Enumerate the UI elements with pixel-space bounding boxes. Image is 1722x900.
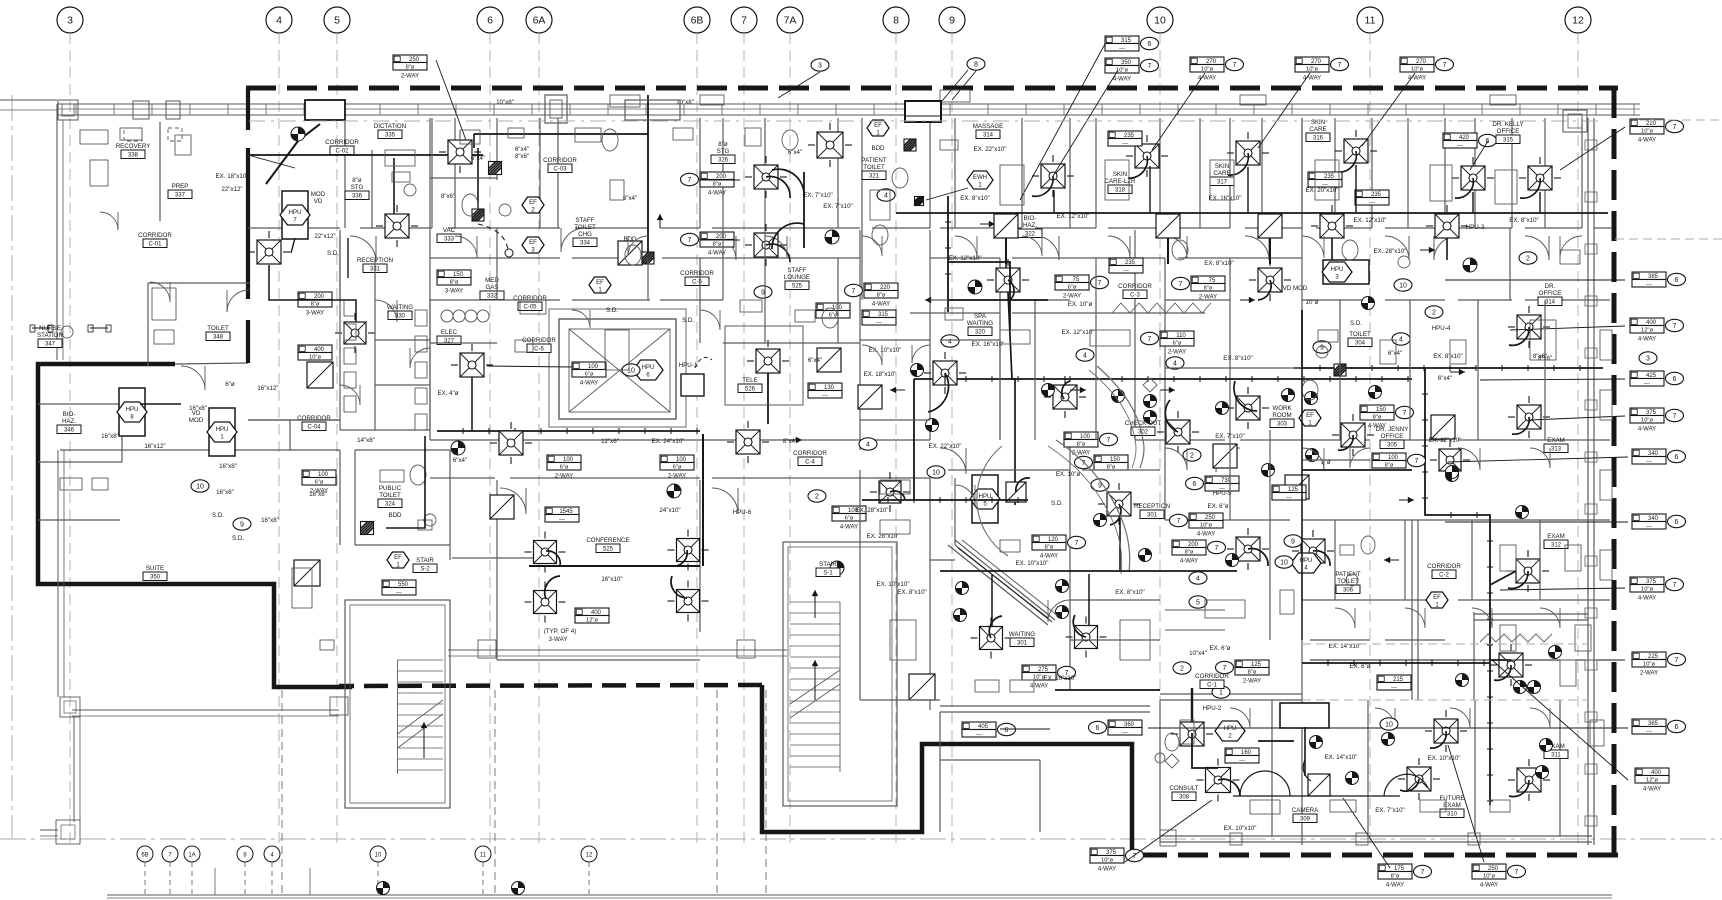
svg-text:TOILET: TOILET [207, 325, 229, 332]
callout 9 [233, 518, 251, 530]
svg-text:—: — [1122, 140, 1128, 146]
svg-text:SKIN: SKIN [1311, 119, 1325, 126]
svg-text:TOILET: TOILET [379, 492, 401, 499]
svg-text:EX. 22"x10": EX. 22"x10" [974, 146, 1007, 153]
curved corridor wall2 [1048, 446, 1122, 574]
HPU unit 8 [117, 402, 147, 422]
transfer grille [817, 348, 841, 372]
counter sawtooth [1112, 303, 1211, 313]
svg-text:CARE: CARE [1213, 170, 1230, 177]
supply diffuser [1517, 768, 1541, 792]
HPU cabinet [209, 408, 235, 456]
tag D 235 [1355, 190, 1389, 198]
tag AI 220 [864, 283, 898, 291]
damper f3 [1456, 674, 1469, 687]
tag AI 75 [1191, 276, 1225, 284]
grid bubble 10 [1147, 7, 1173, 33]
supply diffuser [1341, 423, 1365, 447]
flex handle [505, 249, 513, 257]
svg-text:320: 320 [975, 330, 986, 336]
duct vert x648 [647, 95, 649, 260]
svg-text:4-WAY: 4-WAY [872, 302, 890, 308]
duct hpu7 run [269, 265, 356, 322]
duct vert mid [947, 196, 949, 312]
bottom grid bubble 7 [162, 846, 178, 862]
supply diffuser [1075, 626, 1098, 649]
svg-text:EX. 8"x10": EX. 8"x10" [897, 589, 927, 596]
balancing damper [1536, 766, 1549, 779]
svg-text:—: — [1286, 494, 1292, 500]
svg-text:—: — [822, 392, 828, 398]
bottom grid leader 4 [271, 862, 273, 895]
svg-text:WAITING: WAITING [967, 320, 993, 327]
svg-text:4: 4 [1173, 360, 1177, 367]
tag AI 75 [1055, 275, 1089, 283]
leader ai100 elec [487, 366, 572, 367]
HPU unit 6 [633, 360, 663, 380]
duct hpu2 out [1192, 733, 1218, 768]
svg-text:TOILET: TOILET [1349, 331, 1371, 338]
bottom grid bubble 4 [264, 846, 280, 862]
tag D 365 [1632, 719, 1666, 727]
svg-text:RECOVERY: RECOVERY [116, 143, 151, 150]
svg-text:SPA: SPA [974, 313, 987, 320]
right wall frames [1585, 140, 1597, 150]
svg-text:8"ø: 8"ø [311, 301, 320, 307]
svg-text:EX. 10"x10": EX. 10"x10" [1428, 755, 1461, 762]
svg-text:7: 7 [1215, 545, 1219, 552]
tag AI 250 [1472, 864, 1506, 872]
svg-text:12"ø: 12"ø [1641, 327, 1654, 333]
fire damper [642, 252, 654, 264]
svg-text:EX. 28"x10": EX. 28"x10" [1374, 248, 1407, 255]
room under biohaz [38, 519, 120, 521]
svg-text:314: 314 [983, 133, 994, 139]
svg-text:7: 7 [1443, 62, 1447, 69]
duct main top right [1290, 212, 1608, 214]
svg-text:7: 7 [1338, 62, 1342, 69]
balancing damper [1463, 258, 1477, 272]
svg-text:4-WAY: 4-WAY [1638, 427, 1656, 433]
duct ex14x10 right [1302, 662, 1490, 664]
svg-text:CORRIDOR: CORRIDOR [513, 295, 547, 302]
svg-text:4-WAY: 4-WAY [1638, 596, 1656, 602]
door swings [350, 236, 376, 262]
callout 9 [1313, 341, 1331, 353]
callout 4 [877, 189, 895, 201]
svg-text:STAIR: STAIR [416, 557, 434, 564]
svg-text:311: 311 [1551, 753, 1561, 759]
exhaust drop [1167, 238, 1169, 264]
tag D 235 [1308, 172, 1342, 180]
svg-text:—: — [1457, 142, 1463, 148]
svg-text:6: 6 [1675, 277, 1679, 284]
svg-text:4-WAY: 4-WAY [1098, 867, 1116, 873]
bottom grid leader 12 [588, 862, 590, 895]
callout 4 [1076, 349, 1094, 361]
duct ex right1 [1490, 571, 1516, 585]
stair S-1 [783, 542, 897, 806]
duct hpu8 out [140, 403, 181, 405]
svg-text:EF: EF [1433, 595, 1441, 601]
desk consult [1280, 703, 1329, 728]
exterior window wall top inner2 [57, 114, 1640, 116]
duct horiz y134 [474, 133, 648, 135]
callout 10b [1380, 718, 1398, 730]
supply diffuser [1236, 537, 1260, 561]
svg-text:308: 308 [1179, 795, 1190, 801]
tag AI 100 [572, 362, 606, 370]
svg-text:10"ø: 10"ø [1641, 417, 1654, 423]
svg-text:10: 10 [196, 483, 204, 490]
terrace rail sw [40, 829, 58, 831]
svg-text:BDD: BDD [388, 512, 402, 519]
tag AI 120 [1032, 535, 1066, 543]
svg-text:2-WAY: 2-WAY [1243, 679, 1261, 685]
terrace grid dash [281, 690, 283, 895]
duct main ex28 [862, 499, 1028, 501]
svg-text:TELE: TELE [742, 377, 757, 384]
svg-text:CONSULT: CONSULT [1169, 785, 1198, 792]
svg-text:22"x12": 22"x12" [221, 186, 242, 193]
tag AI 200 [700, 172, 734, 180]
svg-text:EX. 18"x10": EX. 18"x10" [216, 173, 249, 180]
bottom grid leader 6B [144, 862, 146, 895]
terrace post e1 [478, 640, 496, 658]
svg-text:318: 318 [1115, 188, 1126, 194]
bottom wall post1 [1230, 833, 1242, 845]
balancing damper [1226, 554, 1239, 567]
svg-text:CAMERA: CAMERA [1292, 807, 1319, 814]
balancing damper [954, 609, 967, 622]
supply diffuser [1517, 405, 1541, 429]
svg-text:6"ø: 6"ø [829, 312, 838, 318]
tag II 100 [660, 455, 694, 463]
transfer grille [618, 241, 642, 265]
callout 10 [622, 364, 640, 376]
tag B 225 [1632, 652, 1666, 660]
tag H 160 [1225, 748, 1259, 756]
svg-text:332: 332 [487, 294, 498, 300]
tag B 270 [1400, 57, 1434, 65]
svg-text:EX. 4"ø: EX. 4"ø [437, 390, 458, 397]
exhaust fan tag EF-1 [1426, 592, 1448, 608]
tag B 270 [1190, 57, 1224, 65]
svg-text:8"ø: 8"ø [1204, 285, 1213, 291]
svg-text:2: 2 [1190, 452, 1194, 459]
svg-text:10"ø: 10"ø [1201, 66, 1214, 72]
callout 4 [1189, 572, 1207, 584]
svg-text:EX. 12"x10": EX. 12"x10" [1057, 213, 1090, 220]
supply diffuser [756, 349, 780, 373]
HPU unit 1 [207, 422, 237, 442]
svg-text:4-WAY: 4-WAY [1303, 76, 1321, 82]
diamond mark2 [1165, 754, 1179, 768]
tag AI 110 [1160, 331, 1194, 339]
HPU-1 cabinet [681, 374, 704, 396]
svg-text:6: 6 [1673, 376, 1677, 383]
heavy solid boundary SE [762, 685, 1132, 855]
bottom grid leader 7 [169, 862, 171, 895]
svg-text:16"x10": 16"x10" [601, 576, 622, 583]
svg-text:4: 4 [1196, 575, 1200, 582]
duct drop d1 [1053, 190, 1055, 213]
svg-text:EX. 6"ø: EX. 6"ø [1349, 663, 1370, 670]
fire damper [904, 139, 916, 151]
supply diffuser [460, 353, 484, 377]
svg-text:6: 6 [1148, 41, 1152, 48]
dash line right1 [1615, 238, 1722, 240]
left edge wall [56, 104, 58, 360]
angled wall [955, 545, 1052, 622]
dash line c2b [1302, 699, 1588, 701]
duct hpu2 link [1258, 740, 1294, 742]
grid bubble 3 [57, 7, 83, 33]
svg-text:5: 5 [334, 15, 340, 27]
balancing damper [956, 582, 969, 595]
callout 2 [1183, 449, 1201, 461]
flex c5 [1008, 280, 1014, 300]
duct camera riser [1304, 727, 1306, 776]
svg-text:321: 321 [869, 174, 880, 180]
svg-text:3: 3 [1646, 355, 1650, 362]
supply diffuser [1135, 144, 1159, 168]
svg-text:11: 11 [480, 853, 487, 859]
grid line 6 [489, 33, 491, 845]
flex sl1 [772, 169, 804, 196]
svg-text:6: 6 [1675, 519, 1679, 526]
svg-text:BIO-: BIO- [63, 411, 76, 418]
svg-text:309: 309 [1300, 817, 1311, 823]
svg-text:6"x4": 6"x4" [471, 155, 485, 162]
heavy dashed boundary bottom-mid [339, 685, 762, 686]
svg-text:HPU: HPU [126, 407, 139, 413]
tag C 400 [1630, 318, 1664, 326]
exhaust fan tag EF-2 [522, 197, 544, 213]
heavy solid boundary SW [38, 364, 352, 687]
grid bubble 12 [1565, 7, 1591, 33]
svg-text:EX. 10"x10": EX. 10"x10" [877, 581, 910, 588]
dash line right2 [1640, 119, 1722, 121]
supply diffuser [1041, 164, 1065, 188]
door swings detail [455, 236, 477, 258]
balancing damper [1216, 402, 1229, 415]
balancing damper [1369, 386, 1382, 399]
svg-text:VD: VD [314, 198, 323, 205]
supply diffuser [1439, 449, 1461, 471]
svg-text:12"x6": 12"x6" [601, 438, 619, 445]
elevator shaft [559, 319, 676, 419]
HPU cabinet [282, 191, 308, 239]
svg-text:SUITE: SUITE [146, 565, 164, 572]
balancing damper [1362, 297, 1375, 310]
svg-text:7: 7 [1223, 665, 1227, 672]
svg-text:CORRIDOR: CORRIDOR [543, 157, 577, 164]
supply diffuser [1236, 141, 1260, 165]
balancing damper [1516, 506, 1529, 519]
duct toilet drop [386, 436, 425, 528]
transfer grille [1308, 774, 1330, 796]
svg-text:EX. 7"x10": EX. 7"x10" [803, 192, 833, 199]
supply diffuser [1258, 268, 1282, 292]
tag II 400 [575, 608, 609, 616]
svg-text:FUTURE: FUTURE [1439, 795, 1464, 802]
transfer grille [858, 385, 882, 409]
svg-text:16"x8": 16"x8" [216, 489, 234, 496]
svg-text:6: 6 [1193, 481, 1197, 488]
svg-text:EX. 10"x10": EX. 10"x10" [1044, 675, 1077, 682]
damper f1 [1382, 733, 1395, 746]
transfer grille [307, 362, 333, 388]
exhaust drop d2 [1446, 238, 1448, 260]
duct right spine [1301, 368, 1303, 640]
terrace grid dash [716, 690, 718, 895]
tag HI 125 [1272, 485, 1306, 493]
duct waiting drop2 [1088, 574, 1090, 626]
duct right lower branch [1490, 659, 1511, 661]
svg-text:4: 4 [276, 15, 282, 27]
svg-text:11: 11 [1365, 15, 1376, 27]
grid bubble 7A [777, 7, 803, 33]
svg-text:324: 324 [385, 502, 396, 508]
terrace rail east [448, 649, 787, 651]
tag H 360 [1108, 720, 1142, 728]
svg-text:EX. 6"ø: EX. 6"ø [1209, 645, 1230, 652]
svg-text:(TYP. OF 4): (TYP. OF 4) [544, 628, 577, 635]
balancing damper [1144, 395, 1157, 408]
wall post A [133, 101, 149, 119]
tag AI 200 [1172, 540, 1206, 548]
tag II 100 [832, 506, 866, 514]
elevator lobby wall [549, 309, 686, 427]
callout 9 [1284, 535, 1302, 547]
svg-text:8"ø: 8"ø [1385, 462, 1394, 468]
svg-text:C-02: C-02 [335, 149, 349, 155]
supply diffuser [754, 165, 778, 189]
svg-text:S.D.: S.D. [606, 307, 618, 314]
HPU cabinet [1323, 260, 1369, 284]
svg-text:DR. JENNY: DR. JENNY [1376, 426, 1409, 433]
balancing damper [291, 127, 305, 141]
svg-text:EX. 22"x10": EX. 22"x10" [929, 443, 962, 450]
svg-text:3: 3 [67, 15, 73, 27]
svg-text:9: 9 [1291, 538, 1295, 545]
corner post top-left [58, 100, 78, 120]
callout 9 [754, 286, 772, 298]
tele room [725, 326, 803, 405]
svg-text:4-WAY: 4-WAY [1198, 76, 1216, 82]
svg-text:10"ø: 10"ø [1306, 299, 1319, 306]
svg-text:EF: EF [874, 123, 882, 129]
svg-text:PREP: PREP [172, 183, 189, 190]
supply diffuser [1435, 214, 1459, 238]
svg-text:6"ø: 6"ø [585, 371, 594, 377]
bottom wall post4 [1160, 830, 1176, 846]
duct main ex10x10b [940, 570, 1237, 572]
exhaust fan tag EF-1 [589, 277, 611, 293]
bottom wall post3 [1468, 833, 1480, 845]
duct hpu7 [291, 238, 295, 253]
svg-text:4-WAY: 4-WAY [1480, 883, 1498, 889]
balancing damper [830, 561, 844, 575]
dashed rect A [124, 128, 142, 141]
tag II 200 [298, 292, 332, 300]
duct main corridor C-4 [437, 430, 700, 432]
svg-text:7: 7 [1177, 518, 1181, 525]
duct stg drop [347, 238, 349, 278]
svg-text:10: 10 [375, 853, 382, 859]
svg-text:6B: 6B [691, 15, 704, 27]
duct right vert [1301, 310, 1303, 368]
svg-text:10: 10 [1280, 559, 1288, 566]
HPU unit 5 [970, 489, 1000, 509]
tag B 250 [1189, 513, 1223, 521]
flex arc consult [1240, 771, 1290, 796]
svg-text:—: — [1646, 523, 1652, 529]
duct main top mid [896, 212, 1290, 214]
svg-text:7: 7 [1673, 323, 1677, 330]
grid line 3 [69, 33, 71, 845]
left short walls [0, 99, 57, 101]
svg-text:STG: STG [351, 184, 364, 191]
corridor C-3 south wall [910, 312, 1000, 314]
svg-text:312: 312 [1551, 543, 1562, 549]
supply diffuser [1528, 166, 1552, 190]
bottom grid leader 1A [191, 862, 193, 895]
svg-text:EX. 12"x10": EX. 12"x10" [1062, 329, 1095, 336]
supply diffuser [534, 591, 557, 614]
exterior window wall top [57, 103, 1640, 105]
svg-text:1: 1 [1219, 689, 1223, 696]
svg-text:C-01: C-01 [148, 242, 162, 248]
svg-text:8"ø: 8"ø [1045, 544, 1054, 550]
svg-text:DR. KELLY: DR. KELLY [1492, 121, 1523, 128]
svg-text:8"ø: 8"ø [1391, 873, 1400, 879]
svg-text:HAZ.: HAZ. [62, 418, 76, 425]
svg-text:EX. 10"x10": EX. 10"x10" [1016, 560, 1049, 567]
damper f5 [1540, 739, 1553, 752]
balancing damper [1144, 411, 1157, 424]
fire damper [361, 522, 374, 535]
svg-text:3: 3 [818, 62, 822, 69]
tag D 235 [1108, 131, 1142, 139]
svg-text:4-WAY: 4-WAY [708, 191, 726, 197]
tag D 385 [1632, 272, 1666, 280]
duct drop d4 [1355, 165, 1357, 213]
duct drop dictation [393, 158, 395, 214]
duct drop x1015 [1008, 292, 1015, 505]
svg-text:—: — [1646, 728, 1652, 734]
bottom sidewalk line [107, 894, 1612, 896]
svg-text:7: 7 [1403, 410, 1407, 417]
roof drain mark [625, 100, 680, 120]
tag B 275 [1022, 665, 1056, 673]
tag HI 130 [808, 383, 842, 391]
HPU cabinet [119, 388, 145, 436]
svg-text:336: 336 [352, 194, 363, 200]
supply diffuser [534, 541, 557, 564]
svg-text:EX. 16"x10": EX. 16"x10" [1209, 195, 1242, 202]
svg-text:7A: 7A [784, 15, 797, 27]
waiting chairs [344, 300, 356, 316]
interior walls detail [930, 299, 1000, 301]
svg-text:STAIR: STAIR [819, 561, 837, 568]
grid line 7 [743, 33, 745, 845]
svg-text:MOD: MOD [189, 417, 204, 424]
flex c1 [928, 373, 949, 412]
duct tele drop [767, 373, 769, 424]
svg-text:4-WAY: 4-WAY [1638, 337, 1656, 343]
